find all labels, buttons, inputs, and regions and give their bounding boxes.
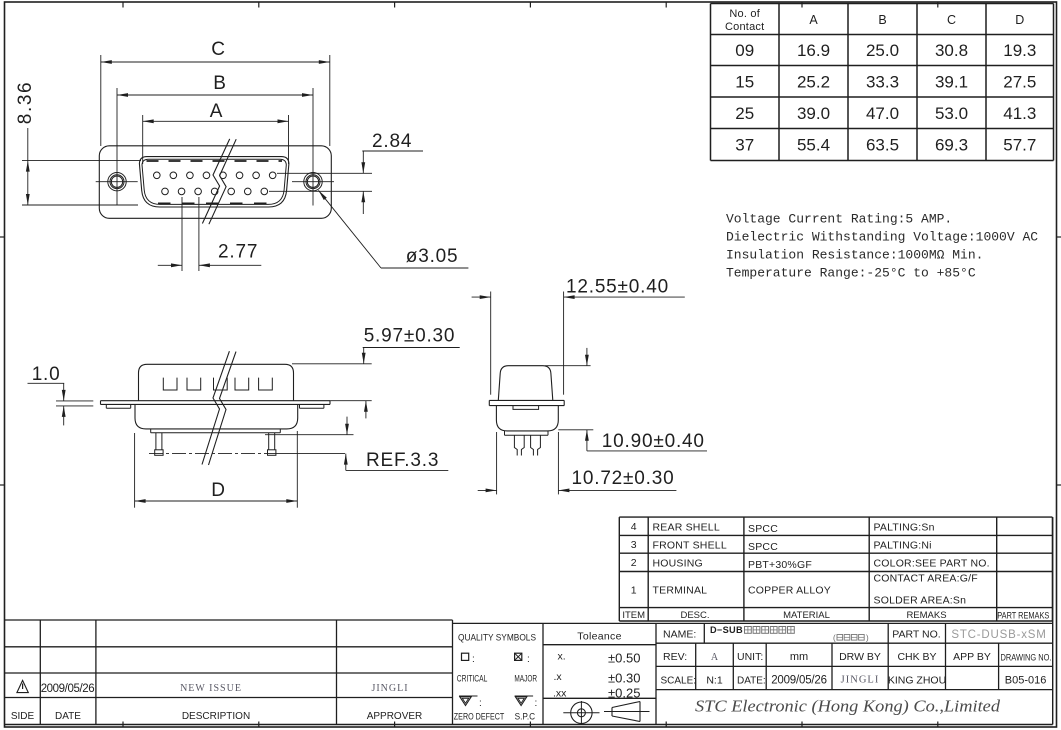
dimension A line xyxy=(143,120,289,122)
end view dome outline xyxy=(498,366,553,401)
dimension 5.97 top reference line xyxy=(292,363,372,365)
svg-text:KING ZHOU: KING ZHOU xyxy=(888,675,946,687)
side view right pin xyxy=(268,433,270,450)
svg-text:B05-016: B05-016 xyxy=(1005,675,1047,687)
svg-text:MATERIAL: MATERIAL xyxy=(783,610,830,621)
side view flange left tab xyxy=(105,404,107,408)
svg-text:41.3: 41.3 xyxy=(1003,104,1036,123)
revision triangle symbol xyxy=(17,680,28,692)
svg-text:DATE: DATE xyxy=(55,711,81,722)
svg-text::: : xyxy=(535,698,538,709)
dimension 10.90 top reference line xyxy=(545,365,591,367)
dimension diameter 3.05 leader xyxy=(318,190,381,268)
svg-text:10.90±0.40: 10.90±0.40 xyxy=(602,431,705,452)
svg-text:15: 15 xyxy=(735,72,754,91)
svg-text:SPCC: SPCC xyxy=(748,541,778,553)
side view upper body outline xyxy=(139,364,294,400)
svg-text:16.9: 16.9 xyxy=(797,41,830,60)
svg-text:CRITICAL: CRITICAL xyxy=(457,674,488,684)
side view flange right tab xyxy=(299,404,301,408)
svg-text:Voltage Current Rating:5 AMP.: Voltage Current Rating:5 AMP. xyxy=(726,212,952,227)
side view left pin xyxy=(155,433,157,450)
dimension D line xyxy=(135,500,298,502)
svg-text:ø3.05: ø3.05 xyxy=(406,246,459,267)
svg-text:PALTING:Sn: PALTING:Sn xyxy=(874,522,935,534)
svg-text:DESCRIPTION: DESCRIPTION xyxy=(182,711,250,722)
svg-text:2009/05/26: 2009/05/26 xyxy=(41,683,95,695)
svg-text:ITEM: ITEM xyxy=(622,610,645,621)
svg-text:CONTACT AREA:G/F: CONTACT AREA:G/F xyxy=(874,573,978,585)
svg-text:33.3: 33.3 xyxy=(866,72,899,91)
dimension 10.90 top arrow xyxy=(586,348,588,366)
svg-text:A: A xyxy=(210,101,223,122)
svg-text:CHK BY: CHK BY xyxy=(897,651,936,663)
quality symbol minor square xyxy=(462,653,469,660)
front view right mounting hole xyxy=(304,173,322,191)
title name value chinese characters xyxy=(745,627,752,634)
svg-text:REMAKS: REMAKS xyxy=(906,610,946,621)
svg-text:63.5: 63.5 xyxy=(866,136,899,155)
tolerance block border xyxy=(543,622,656,624)
svg-text:COPPER ALLOY: COPPER ALLOY xyxy=(748,585,831,597)
dimension 10.72 extension lines xyxy=(496,432,498,494)
svg-text:mm: mm xyxy=(790,651,808,663)
front view pin circles top row xyxy=(154,172,161,179)
end view notch below flange xyxy=(513,406,539,410)
side view reference line below body xyxy=(265,434,354,436)
svg-text:47.0: 47.0 xyxy=(866,104,899,123)
dimension 5.97 flange reference extension xyxy=(330,400,372,402)
svg-text:39.0: 39.0 xyxy=(797,104,830,123)
svg-text:PALTING:Ni: PALTING:Ni xyxy=(874,540,932,552)
dimension 8.36 line and arrows xyxy=(27,128,29,205)
svg-text::: : xyxy=(472,654,475,665)
end view pin block xyxy=(504,431,506,435)
svg-text:PART NO.: PART NO. xyxy=(892,629,940,641)
svg-text:±0.50: ±0.50 xyxy=(608,651,640,666)
svg-text:37: 37 xyxy=(735,136,754,155)
svg-text:B: B xyxy=(878,13,886,27)
svg-text:25: 25 xyxy=(735,104,754,123)
dimension 2.84 reference lines xyxy=(277,172,372,174)
svg-text:DRAWING NO.: DRAWING NO. xyxy=(1001,653,1052,663)
svg-text:Temperature Range:-25°C to +85: Temperature Range:-25°C to +85°C xyxy=(726,266,976,281)
svg-text:69.3: 69.3 xyxy=(935,136,968,155)
svg-text:±0.30: ±0.30 xyxy=(608,671,640,686)
end view lower body outline xyxy=(496,406,558,431)
svg-text:(: ( xyxy=(833,634,836,643)
svg-text:2: 2 xyxy=(631,557,637,569)
projection symbol cone xyxy=(612,702,640,708)
svg-text:.x: .x xyxy=(554,671,563,683)
svg-text:1.0: 1.0 xyxy=(32,364,61,385)
svg-text:5.97±0.30: 5.97±0.30 xyxy=(364,326,456,347)
dimension 12.55 left outside arrow xyxy=(472,296,491,298)
side view pin header strip xyxy=(150,429,152,433)
svg-text:27.5: 27.5 xyxy=(1003,72,1036,91)
svg-text:JINGLI: JINGLI xyxy=(841,675,880,686)
svg-text:MAJOR: MAJOR xyxy=(514,674,537,684)
svg-text:12.55±0.40: 12.55±0.40 xyxy=(566,277,669,298)
svg-text:2.84: 2.84 xyxy=(372,131,412,152)
dimension REF.3.3 top arrow xyxy=(346,417,348,435)
svg-text:25.2: 25.2 xyxy=(797,72,830,91)
svg-text:2009/05/26: 2009/05/26 xyxy=(771,675,827,687)
svg-text:JINGLI: JINGLI xyxy=(371,683,408,694)
front view top contact dashes xyxy=(147,160,283,162)
side view flange plate xyxy=(101,400,331,402)
svg-text:SPCC: SPCC xyxy=(748,523,778,535)
side view lower body outline xyxy=(135,404,298,429)
dimension C line xyxy=(101,61,330,63)
dimension 10.72 left outside arrow xyxy=(478,489,497,491)
svg-text:STC-DUSB-xSM: STC-DUSB-xSM xyxy=(951,629,1046,641)
svg-text:.xx: .xx xyxy=(553,688,567,700)
side view break line left stroke xyxy=(202,351,229,464)
dimension 8.36 reference lines xyxy=(22,160,141,162)
dimension D extension lines xyxy=(134,433,136,508)
dimension 10.90 bottom reference line xyxy=(558,429,593,431)
side view pin slots xyxy=(163,378,177,390)
quality symbol major crossed square xyxy=(515,653,522,660)
dimension 2.77 line and arrows xyxy=(158,264,182,266)
svg-text:PBT+30%GF: PBT+30%GF xyxy=(748,559,812,571)
svg-text:): ) xyxy=(866,634,869,643)
revision table grid xyxy=(5,619,453,621)
svg-text::: : xyxy=(527,654,530,665)
side view break line right stroke xyxy=(209,352,237,465)
dimension A extension lines xyxy=(142,115,144,164)
dimension B extension lines xyxy=(116,88,118,206)
svg-text:PART REMAKS: PART REMAKS xyxy=(997,611,1049,621)
svg-text:4: 4 xyxy=(631,521,637,533)
svg-text:C: C xyxy=(211,39,226,60)
svg-text:19.3: 19.3 xyxy=(1003,41,1036,60)
svg-text:25.0: 25.0 xyxy=(866,41,899,60)
dimension B line xyxy=(117,94,313,96)
svg-text::: : xyxy=(479,698,482,709)
frame zone ticks bottom xyxy=(122,722,124,728)
quality symbol zero defect triangle xyxy=(459,695,478,697)
svg-text:x.: x. xyxy=(558,651,566,663)
svg-text:QUALITY SYMBOLS: QUALITY SYMBOLS xyxy=(458,632,536,643)
svg-text:1: 1 xyxy=(631,585,637,597)
svg-text:APPROVER: APPROVER xyxy=(367,711,423,722)
front view left mounting hole xyxy=(108,173,126,191)
svg-text:C: C xyxy=(947,13,956,27)
front view pin circles bottom row xyxy=(162,188,169,195)
svg-text:TERMINAL: TERMINAL xyxy=(653,585,708,597)
dimension 5.97 bottom arrow xyxy=(365,401,367,419)
title block grid xyxy=(656,642,1053,644)
svg-text:No. of: No. of xyxy=(729,8,760,20)
svg-text:HOUSING: HOUSING xyxy=(653,558,703,570)
svg-text:D: D xyxy=(211,480,226,501)
end view right pin xyxy=(531,435,534,455)
svg-text:STC Electronic (Hong Kong) Co.: STC Electronic (Hong Kong) Co.,Limited xyxy=(695,697,1001,716)
svg-text:N:1: N:1 xyxy=(706,675,723,687)
svg-text:Toleance: Toleance xyxy=(577,631,621,643)
svg-text:NAME:: NAME: xyxy=(663,629,696,641)
front view right hole crosshair xyxy=(292,181,334,183)
svg-text:53.0: 53.0 xyxy=(935,104,968,123)
svg-text:REV:: REV: xyxy=(663,651,687,663)
contact size table grid xyxy=(711,3,1054,5)
svg-text:S.P.C: S.P.C xyxy=(515,712,536,722)
front view break line left stroke xyxy=(202,139,229,224)
front view bottom contact dashes xyxy=(158,202,271,204)
svg-text:Dielectric Withstanding Voltag: Dielectric Withstanding Voltage:1000V AC xyxy=(726,230,1038,245)
svg-text:SCALE:: SCALE: xyxy=(661,676,697,687)
svg-text:30.8: 30.8 xyxy=(935,41,968,60)
svg-text:REF.3.3: REF.3.3 xyxy=(366,450,439,471)
svg-text:D: D xyxy=(1015,13,1024,27)
front view left hole crosshair xyxy=(96,181,138,183)
svg-text:B: B xyxy=(213,73,226,94)
svg-text:ZERO DEFECT: ZERO DEFECT xyxy=(454,712,505,722)
front view flange outline xyxy=(99,146,331,219)
dimension 2.84 leader and arrows xyxy=(362,150,423,152)
svg-text:DATE:: DATE: xyxy=(737,676,766,687)
dimension 2.77 extension lines xyxy=(181,197,183,271)
end view flange plate xyxy=(489,399,564,401)
quality symbol spc triangle xyxy=(515,695,534,697)
front view break line right stroke xyxy=(209,139,236,224)
svg-text:09: 09 xyxy=(735,41,754,60)
frame zone ticks top xyxy=(122,2,124,8)
side view centerline xyxy=(149,453,276,455)
svg-text:FRONT SHELL: FRONT SHELL xyxy=(653,540,727,552)
svg-text:DESC.: DESC. xyxy=(680,610,709,621)
svg-text:A: A xyxy=(809,13,818,27)
dimension C extension lines xyxy=(100,55,102,146)
end view left pin xyxy=(514,435,517,455)
svg-text:NEW ISSUE: NEW ISSUE xyxy=(180,683,242,694)
quality symbols cell border xyxy=(453,622,544,624)
svg-text:Insulation Resistance:1000MΩ M: Insulation Resistance:1000MΩ Min. xyxy=(726,248,983,263)
svg-text:10.72±0.30: 10.72±0.30 xyxy=(572,468,675,489)
svg-text:2.77: 2.77 xyxy=(218,242,258,263)
dimension 10.90 label and leader xyxy=(586,430,588,451)
front view D-shell inner outline xyxy=(142,159,286,204)
svg-text:±0.25: ±0.25 xyxy=(608,686,640,701)
projection symbol target circle xyxy=(571,702,592,723)
svg-text:8.36: 8.36 xyxy=(15,81,36,124)
svg-text:3: 3 xyxy=(631,539,637,551)
dimension 12.55 extension lines xyxy=(490,292,492,395)
dimension 1.0 bottom arrow xyxy=(63,406,65,426)
svg-text:39.1: 39.1 xyxy=(935,72,968,91)
svg-text:Contact: Contact xyxy=(725,21,764,33)
svg-text:REAR SHELL: REAR SHELL xyxy=(653,522,720,534)
svg-text:55.4: 55.4 xyxy=(797,136,830,155)
svg-text:A: A xyxy=(711,652,719,663)
svg-text:UNIT:: UNIT: xyxy=(737,651,763,663)
svg-text:APP BY: APP BY xyxy=(953,651,991,663)
svg-text:57.7: 57.7 xyxy=(1003,136,1036,155)
svg-text:SIDE: SIDE xyxy=(11,711,35,722)
BOM table grid xyxy=(619,516,1052,518)
svg-text:COLOR:SEE PART NO.: COLOR:SEE PART NO. xyxy=(874,558,990,570)
front view D-shell outer outline xyxy=(139,157,289,207)
svg-text:SOLDER AREA:Sn: SOLDER AREA:Sn xyxy=(874,595,967,607)
svg-text:DRW BY: DRW BY xyxy=(839,651,881,663)
dimension 1.0 reference lines xyxy=(56,400,93,402)
frame zone ticks left xyxy=(0,236,5,238)
svg-text:D−SUB: D−SUB xyxy=(710,625,743,635)
frame zone ticks right xyxy=(1057,236,1061,238)
